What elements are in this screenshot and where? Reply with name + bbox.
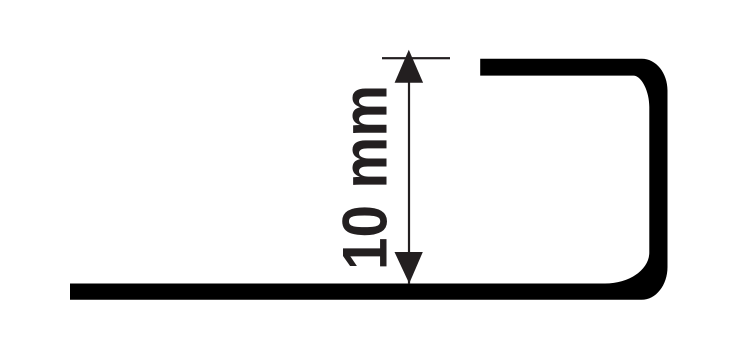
dimension line bbox=[408, 58, 410, 284]
arrowhead up bbox=[395, 50, 424, 83]
svg-text:10 mm: 10 mm bbox=[329, 85, 400, 270]
profile cross-section (channel / square edge trim) bbox=[70, 59, 668, 300]
arrowhead down bbox=[395, 252, 423, 284]
dimension tick (top extension line) bbox=[382, 57, 450, 59]
